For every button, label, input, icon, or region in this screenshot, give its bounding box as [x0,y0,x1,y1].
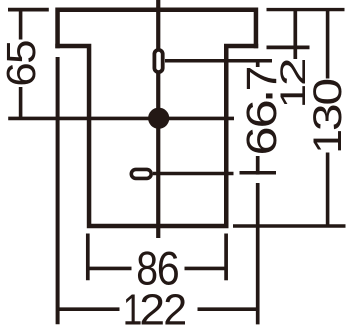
label 66.7 [218,66,287,156]
label 86 [136,243,179,295]
dim 12 bottom tick [267,46,310,50]
dim 65 line lower [19,87,23,120]
svg-text:7: 7 [238,66,285,92]
label 65 [0,40,44,87]
right column extension line [256,183,260,324]
svg-text:1: 1 [305,129,349,154]
dim 65 top tick [8,8,49,12]
dim 86 line right [185,267,228,271]
svg-text:6: 6 [238,99,285,128]
pivot dot [148,108,169,129]
svg-text:3: 3 [305,103,350,131]
dim 86 left tick [86,234,90,281]
fixture outline: top plate [58,10,256,48]
bottom extension line y226 [233,224,346,228]
dim 12 line [293,11,297,59]
dim 86 line left [88,267,132,271]
dim 66.7 line upper stub [256,62,260,67]
label 130 [305,78,350,154]
left column extension line [56,57,60,324]
dim 122 line right [198,307,259,311]
svg-text:2: 2 [163,286,187,333]
svg-text:2: 2 [139,285,165,333]
svg-text:5: 5 [0,40,44,64]
dim 130 line upper [326,11,330,79]
label 12 [274,57,313,108]
dim 66.7 bottom tick [240,171,277,175]
dim 86 right tick [224,234,228,281]
centerline (vertical axis) [156,0,160,238]
dim 66.7 line mid [256,156,260,175]
dim 130 line lower [326,153,330,227]
dim 122 line left [58,307,120,311]
pill slot lower [131,169,151,178]
pill slot line y173 [153,172,234,176]
svg-text:0: 0 [305,78,350,106]
svg-text:6: 6 [238,126,285,155]
reference plane line y118 [8,117,234,121]
fixture outline: body (steps, sides, bottom) [55,46,258,226]
label 122 [123,285,187,333]
svg-text:6: 6 [0,62,44,86]
screw capsule top [154,50,162,72]
extension line top right [267,8,345,11]
capsule tick line y61 [165,59,272,63]
dim 65 line upper [19,11,23,40]
